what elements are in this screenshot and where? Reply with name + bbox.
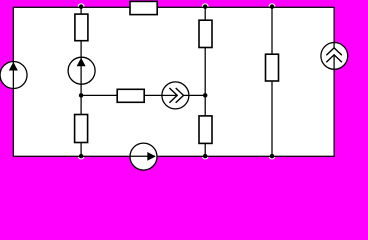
wire: left branch vertical	[80, 7, 82, 156]
circuit canvas (white sheet)	[13, 7, 334, 156]
node dot (bottom, right inner branch)	[270, 154, 275, 159]
node halo (top, right inner branch)	[269, 3, 276, 10]
node dot (bottom, left branch)	[79, 154, 84, 159]
node dot (top, right inner branch)	[270, 4, 275, 9]
wire: right inner branch vertical	[271, 7, 273, 156]
current source I2 (left branch, arrow up)	[68, 57, 95, 84]
node dot (middle wire, right junction)	[203, 93, 208, 98]
node dot (top, left branch)	[79, 4, 84, 9]
resistor R1 (top of left branch)	[75, 14, 88, 41]
resistor R3 (middle branch, upper)	[199, 20, 212, 47]
wire: middle branch vertical	[204, 7, 206, 156]
resistor R5 (middle horizontal wire)	[117, 89, 144, 102]
dependent current source D2 (right border, double chevron up)	[321, 43, 348, 70]
dependent current source D1 (middle wire, double chevron right)	[162, 82, 189, 109]
node halo (top, left branch)	[78, 3, 85, 10]
resistor R4 (right inner branch)	[266, 54, 279, 81]
node dot (middle wire, left junction)	[79, 93, 84, 98]
node halo (bottom, right inner branch)	[269, 153, 276, 160]
resistor R7 (middle branch, lower)	[199, 116, 212, 143]
node halo (bottom, left branch)	[78, 153, 85, 160]
current source I1 (left border, arrow up)	[0, 62, 27, 89]
node halo (bottom, middle branch)	[202, 153, 209, 160]
node dot (bottom, middle branch)	[203, 154, 208, 159]
wire: middle horizontal	[81, 94, 205, 96]
wire: outer loop rectangle	[13, 7, 334, 156]
node dot (top, middle branch)	[203, 4, 208, 9]
resistor R2 (on top border, horizontal)	[130, 1, 157, 14]
current source I3 (bottom border, arrow right)	[130, 143, 157, 170]
resistor R6 (bottom of left branch)	[75, 115, 88, 143]
node halo (top, middle branch)	[202, 3, 209, 10]
